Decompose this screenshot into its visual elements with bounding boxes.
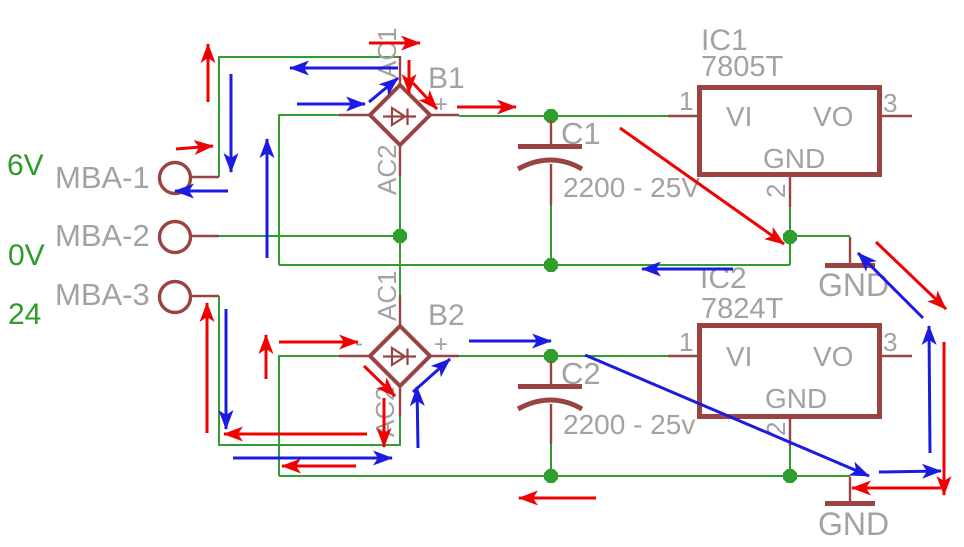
svg-text:B2: B2 [428, 299, 465, 332]
svg-text:24: 24 [8, 298, 41, 331]
svg-text:1: 1 [679, 327, 693, 357]
svg-text:C1: C1 [561, 116, 601, 151]
svg-text:GND: GND [763, 143, 825, 174]
svg-text:6V: 6V [7, 149, 44, 182]
svg-text:VI: VI [726, 101, 752, 132]
svg-text:C2: C2 [561, 356, 601, 391]
svg-text:3: 3 [883, 88, 897, 118]
svg-text:MBA-1: MBA-1 [55, 160, 150, 195]
svg-text:2: 2 [761, 422, 791, 436]
svg-text:0V: 0V [8, 239, 45, 272]
svg-text:2: 2 [761, 184, 791, 198]
svg-text:7805T: 7805T [701, 51, 784, 83]
svg-text:GND: GND [765, 383, 827, 414]
svg-text:1: 1 [679, 86, 693, 116]
svg-text:VO: VO [813, 101, 853, 132]
svg-text:3: 3 [883, 327, 897, 357]
svg-text:AC1: AC1 [372, 27, 402, 78]
svg-text:+: + [434, 331, 448, 358]
svg-text:MBA-3: MBA-3 [55, 277, 150, 312]
svg-text:+: + [434, 91, 448, 118]
svg-text:MBA-2: MBA-2 [55, 218, 150, 253]
svg-text:AC2: AC2 [372, 144, 402, 195]
svg-text:2200 - 25V: 2200 - 25V [563, 172, 700, 203]
svg-text:VO: VO [813, 341, 853, 372]
svg-text:2200 - 25v: 2200 - 25v [563, 409, 695, 440]
svg-text:AC1: AC1 [372, 270, 402, 321]
svg-text:7824T: 7824T [701, 293, 784, 325]
svg-text:IC2: IC2 [700, 262, 747, 295]
svg-text:GND: GND [818, 506, 889, 542]
svg-text:VI: VI [726, 341, 752, 372]
